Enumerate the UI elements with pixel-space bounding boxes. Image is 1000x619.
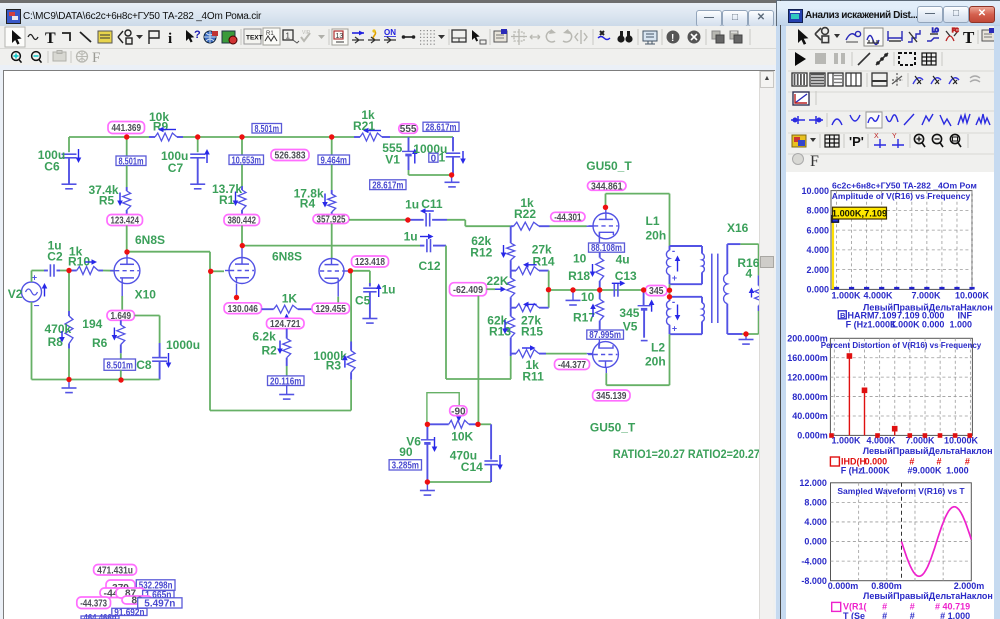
wire C12 down loop [445, 246, 447, 379]
svg-text:380.442: 380.442 [228, 216, 257, 227]
current arrow C12 [420, 236, 428, 238]
zoom out tool [32, 52, 42, 63]
wire 357.925 to C11 [349, 219, 405, 221]
wire bias loop top [427, 393, 459, 425]
wire secondary right top [758, 244, 760, 275]
current label 28.617m top [423, 122, 459, 131]
svg-text:R14: R14 [533, 255, 555, 269]
chart3 cursor dashed line [901, 483, 903, 581]
svg-text:6N8S: 6N8S [135, 233, 165, 247]
svg-text:6N8S: 6N8S [272, 250, 302, 264]
svg-text:441.369: 441.369 [112, 123, 142, 134]
source V1 555V battery [408, 137, 410, 151]
data points icon [876, 53, 888, 65]
svg-text:ЛевыйПравыйДельтаНаклон: ЛевыйПравыйДельтаНаклон [863, 591, 993, 601]
panel layout icons [792, 73, 807, 86]
properties icon [494, 31, 507, 42]
svg-text:1.000: 1.000 [949, 319, 972, 329]
node label -44.373 [77, 597, 111, 609]
distortion icon [946, 28, 959, 41]
binoculars icon [617, 31, 632, 43]
potentiometer 10K [427, 423, 448, 425]
svg-text:0.000m: 0.000m [797, 431, 828, 441]
svg-text:# 1.000: # 1.000 [940, 611, 970, 619]
svg-text:R11: R11 [522, 370, 544, 384]
svg-text:+: + [672, 324, 677, 334]
current arrow R2 [279, 341, 281, 349]
svg-text:TEXT: TEXT [246, 35, 263, 42]
wire 123.424 to X10 plate [126, 226, 128, 251]
current arrow V6 [434, 437, 436, 447]
svg-text:470k: 470k [45, 322, 72, 336]
svg-text:V1: V1 [385, 153, 400, 167]
svg-text:345.139: 345.139 [596, 391, 627, 402]
transfer icon [927, 28, 939, 41]
node label -44.301 [551, 212, 585, 221]
svg-text:1K: 1K [282, 292, 298, 306]
capacitor C12 1u [420, 245, 424, 247]
current label 464.466n clipped [81, 616, 119, 619]
current arrow V5 [651, 305, 653, 312]
resistor R17 10 [599, 290, 601, 299]
wire 10K right to C14 [478, 423, 491, 425]
properties icon [982, 28, 995, 41]
svg-text:1.000K: 1.000K [831, 290, 861, 300]
wire V2 top to C2 [31, 271, 33, 283]
current label 3.285m [389, 460, 421, 470]
junction dot 14 [449, 172, 454, 177]
svg-text:−: − [34, 301, 40, 312]
wire label to R1 [241, 165, 243, 187]
node label 88 overlapped [122, 596, 152, 604]
power display icon [373, 30, 375, 40]
help mode [186, 30, 194, 43]
current arrow R3 [344, 360, 346, 367]
svg-text:28.617m: 28.617m [372, 180, 403, 191]
node label 345 [646, 286, 668, 296]
chart1 grid [831, 191, 972, 290]
move disabled [511, 29, 527, 45]
inductor L2 primary lower [670, 296, 703, 298]
node label 526.383 [271, 150, 309, 161]
wire loop down [209, 252, 211, 411]
stop button disabled [815, 53, 826, 64]
wire grid upper GU50 [587, 225, 594, 227]
svg-text:10.653m: 10.653m [232, 155, 262, 166]
svg-text:22K: 22K [487, 274, 509, 288]
pot 22K wiper arrow [495, 288, 501, 290]
wire 357.925 down to tube3 plate [331, 224, 333, 259]
capacitor 1000u at V1 [452, 137, 454, 151]
svg-text:6.2k: 6.2k [252, 330, 276, 344]
junction dot 18 [641, 287, 646, 292]
svg-text:6.000: 6.000 [806, 225, 829, 235]
pot 10K wiper arrow [458, 415, 460, 416]
flag tool [149, 31, 159, 44]
junction dot 15 [603, 205, 608, 210]
svg-text:471.431u: 471.431u [97, 565, 133, 576]
svg-text:R15: R15 [521, 325, 543, 339]
potentiometer 22K [510, 271, 512, 278]
current arrow R12 [503, 245, 505, 253]
svg-text:-8.000: -8.000 [801, 576, 827, 586]
current arrow C13 [612, 282, 620, 284]
current arrow R8 [61, 331, 63, 337]
svg-text:10.000K: 10.000K [955, 290, 990, 300]
resistor R18 10 [599, 252, 601, 257]
current arrow R13 [504, 320, 506, 329]
wire grid lower GU50 [587, 353, 593, 355]
capacitor C7 100u [197, 137, 199, 152]
ground V1 [451, 175, 453, 182]
svg-text:ON: ON [384, 28, 396, 37]
svg-text:9.464m: 9.464m [321, 155, 348, 166]
junction dot 9 [208, 269, 213, 274]
wire cathode upper GU50 [598, 236, 600, 244]
wire tube2 cathode [236, 284, 238, 298]
svg-text:0.000: 0.000 [806, 285, 829, 295]
svg-text:2.000m: 2.000m [954, 581, 985, 591]
svg-text:R18: R18 [568, 269, 590, 283]
current label 88.108m [589, 243, 625, 252]
chart1 plot frame [831, 191, 972, 290]
svg-text:-44.373: -44.373 [80, 598, 107, 609]
svg-text:90: 90 [399, 445, 413, 459]
current arrow R1 [235, 192, 237, 201]
svg-text:1u: 1u [405, 198, 419, 212]
current label 9.464m [318, 155, 350, 165]
node label 124.721 [267, 318, 305, 328]
svg-text:4.000: 4.000 [804, 517, 827, 527]
svg-text:C6: C6 [44, 160, 60, 174]
bottom rail input stage [32, 379, 160, 381]
svg-text:1.000: 1.000 [946, 465, 969, 475]
wire cathode lower GU50 [598, 339, 600, 345]
zoom in tool [12, 52, 22, 63]
svg-text:13: 13 [336, 33, 344, 40]
wire X10 plate node right [127, 251, 210, 253]
info circle icon [667, 31, 680, 44]
grid icon [922, 53, 936, 65]
svg-text:R5: R5 [99, 194, 115, 208]
svg-text:R6: R6 [92, 336, 108, 350]
chart2 legend row IHD [830, 457, 839, 466]
junction dot 2 [239, 134, 244, 139]
svg-text:0.000: 0.000 [804, 537, 827, 547]
svg-text:L1: L1 [646, 214, 660, 228]
current label 87.995m [587, 330, 624, 339]
wire R6 to bottom rail [120, 370, 122, 380]
svg-text:'P': 'P' [849, 134, 864, 149]
component yellow icon [98, 31, 112, 43]
wire rail R21 to 1000u cap corner [390, 136, 453, 138]
junction dot 13 [546, 287, 551, 292]
current arrow R18 [592, 264, 594, 272]
wire grid node to C5 [353, 270, 370, 272]
wire L1 bottom to tap [669, 284, 671, 297]
svg-text:80.000m: 80.000m [792, 392, 828, 402]
paste picture icon [730, 31, 742, 43]
transformer core line 2 [717, 254, 719, 323]
junction dot 8 [66, 377, 71, 382]
node label 379 overlapped [106, 580, 135, 595]
ground secondary [745, 334, 747, 340]
split window icon [452, 30, 466, 42]
capacitor C2 1u [44, 270, 48, 272]
svg-text:F (Hz: F (Hz [846, 319, 868, 329]
svg-text:4: 4 [746, 267, 753, 281]
current arrow R21 [369, 130, 382, 132]
current label 8.501m rail [252, 124, 282, 134]
node label -44.377 [555, 359, 590, 369]
svg-text:8.000: 8.000 [806, 206, 829, 216]
svg-text:87.995m: 87.995m [589, 330, 621, 341]
region enable icon [222, 31, 235, 43]
pointer window icon [472, 30, 480, 42]
svg-text:-62.409: -62.409 [453, 285, 483, 296]
svg-text:160.000m: 160.000m [787, 353, 828, 363]
chart1 tooltip [833, 207, 887, 219]
node label 130.046 [224, 303, 261, 314]
svg-text:194: 194 [82, 317, 102, 331]
current arrow C14 [499, 455, 501, 465]
wire C11 to R22 jog [447, 219, 465, 221]
current arrow V2 [44, 289, 46, 297]
wire plate lower GU50 stub [605, 367, 607, 373]
svg-text:+: + [672, 273, 677, 283]
chart2 red stems and markers [848, 356, 850, 435]
junction dot 6 [124, 249, 129, 254]
current arrow R10 [85, 261, 92, 263]
junction dot 12 [405, 217, 410, 222]
resistor R13 62k [510, 308, 512, 317]
svg-text:X10: X10 [135, 287, 157, 301]
right analysis window [776, 0, 1000, 619]
wire plate lower to L2 [605, 373, 607, 385]
svg-text:526.383: 526.383 [275, 151, 306, 162]
node label 129.455 [312, 303, 350, 313]
node label -90 [450, 406, 467, 416]
resistor R22 1k [511, 225, 514, 227]
wire grid stub tube2 [211, 270, 224, 272]
current arrow V1 [414, 154, 416, 164]
capacitor C6 100u [68, 137, 70, 152]
svg-text:-: - [672, 297, 675, 308]
current label 1.665n overlapped [143, 591, 174, 599]
capacitor C5 1u [369, 283, 371, 287]
svg-text:28.617m: 28.617m [426, 122, 457, 133]
svg-text:6c2c+6н8c+ГУ50 TA-282 _4Om Poм: 6c2c+6н8c+ГУ50 TA-282 _4Om Poм [832, 180, 977, 190]
svg-text:5.497n: 5.497n [144, 599, 175, 610]
node label 345.139 [593, 390, 630, 401]
svg-text:3.285m: 3.285m [392, 460, 419, 471]
current arrow R6 [113, 328, 115, 336]
svg-text:1u: 1u [382, 283, 396, 297]
transformer core line 1 [711, 254, 713, 323]
diag wire mode [80, 32, 91, 42]
svg-text:!: ! [671, 33, 674, 44]
source V2 sine [22, 282, 42, 302]
junction dot 5 [66, 268, 71, 273]
ground R2 [286, 386, 288, 395]
wire node to R4 [331, 137, 333, 155]
source V6 90V battery [426, 424, 428, 439]
svg-text:345: 345 [649, 286, 664, 297]
svg-text:X: X [874, 133, 879, 140]
wire -62.409 down to 10K pot [477, 296, 479, 425]
svg-text:464.466n: 464.466n [84, 613, 117, 619]
svg-text:555: 555 [400, 124, 417, 135]
capacitor C8 1000u [159, 343, 161, 358]
wire R11 to lower GU50 grid [546, 353, 587, 355]
svg-text:20h: 20h [645, 355, 666, 369]
current arrow C11 [426, 210, 434, 212]
svg-text:C12: C12 [419, 259, 441, 273]
junction dot 20 [667, 294, 672, 299]
svg-text:-: - [672, 246, 675, 257]
svg-text:L2: L2 [651, 341, 665, 355]
svg-text:129.455: 129.455 [316, 304, 347, 315]
presentation icon [643, 31, 657, 41]
pot 1K wiper arrow [286, 318, 288, 321]
stretch disabled [530, 35, 540, 39]
triode V3 6N8S second [229, 258, 255, 284]
svg-text:4.000K: 4.000K [863, 290, 893, 300]
resistor R12 62k [510, 226, 512, 243]
svg-text:123.424: 123.424 [111, 216, 140, 227]
svg-text:0.800m: 0.800m [871, 581, 902, 591]
wire tube2 plate to C12 [242, 245, 420, 247]
wire R14 right down [548, 271, 550, 308]
triode V4 6N8S third mirrored [319, 259, 344, 284]
ground at C6 [62, 183, 77, 185]
chart1 zero-line blue dashes [834, 287, 975, 290]
box tool disabled [53, 52, 66, 61]
svg-text:i: i [168, 31, 172, 47]
svg-text:0.000m: 0.000m [828, 581, 859, 591]
svg-text:12.000: 12.000 [799, 478, 827, 488]
node label 344.861 [588, 181, 627, 190]
select mode 68 [815, 28, 829, 43]
svg-text:R1: R1 [266, 31, 274, 37]
link globe icon [204, 31, 216, 43]
wire node to R1 [241, 137, 243, 155]
svg-text:1u: 1u [404, 230, 418, 244]
wire V6 bottom to C14 [427, 481, 491, 483]
resistor R1 13.7k [238, 190, 246, 210]
current arrow R16 [751, 293, 753, 298]
wire V1 bottom [409, 174, 452, 176]
resistor R5 37.4k [123, 191, 131, 210]
ground V6 [426, 482, 428, 491]
svg-text:7.000K: 7.000K [911, 290, 941, 300]
copy picture icon [712, 31, 724, 43]
svg-text:8.000: 8.000 [804, 498, 827, 508]
chart3 magenta sine [902, 507, 972, 577]
current label 532.298n [136, 580, 175, 591]
svg-text:C5: C5 [355, 294, 371, 308]
current label 10.653m [229, 155, 264, 165]
resistor R3 1000k [350, 342, 352, 351]
probe icon [846, 31, 861, 42]
svg-text:1.000K: 1.000K [861, 465, 891, 475]
svg-text:T: T [963, 28, 975, 47]
svg-text:C13: C13 [615, 269, 637, 283]
svg-text:C8: C8 [136, 358, 152, 372]
wire segment icon [402, 36, 415, 38]
svg-text:-44.377: -44.377 [558, 360, 586, 371]
svg-text:124.721: 124.721 [270, 319, 301, 330]
svg-text:R13: R13 [489, 325, 511, 339]
label cap IC 0.1 [429, 153, 438, 162]
junction dot 17 [597, 287, 602, 292]
TEXT button [244, 29, 261, 44]
junction dot 11 [348, 268, 353, 273]
svg-text:#: # [910, 611, 915, 619]
current arrow C5 [378, 289, 380, 297]
svg-text:C14: C14 [461, 460, 483, 474]
svg-text:LO: LO [932, 28, 939, 34]
svg-text:-44.301: -44.301 [554, 212, 582, 223]
current label 91.692n [112, 608, 147, 615]
svg-text:20h: 20h [646, 229, 667, 243]
svg-text:4.000: 4.000 [806, 245, 829, 255]
pin numbers icon [283, 30, 293, 40]
wire node to R5 [126, 137, 128, 156]
svg-text:0: 0 [431, 153, 437, 164]
wire 380.442 to plate rail [241, 226, 243, 245]
ground output rail [572, 290, 574, 300]
capacitor C11 1u [405, 219, 424, 221]
limits icon [888, 31, 902, 41]
resistor R21 1k [354, 136, 360, 138]
svg-text:123.418: 123.418 [355, 257, 385, 268]
svg-text:130.046: 130.046 [228, 304, 259, 315]
current arrow L1 [677, 261, 679, 272]
resistor R8 470k [68, 271, 70, 312]
svg-text:V2: V2 [8, 287, 23, 301]
svg-text:GU50_T: GU50_T [590, 420, 636, 434]
current arrow R9 [164, 129, 177, 131]
svg-text:10.000: 10.000 [801, 186, 829, 196]
svg-text:1.000K,7.109: 1.000K,7.109 [832, 208, 887, 218]
svg-text:4u: 4u [616, 252, 630, 266]
wire plate to L1 top [605, 194, 607, 208]
junction dot 16 [570, 287, 575, 292]
junction dot 23 [475, 422, 480, 427]
svg-text:V5: V5 [623, 320, 638, 334]
svg-text:345: 345 [619, 306, 639, 320]
svg-text:R9: R9 [153, 120, 169, 134]
current label 5.497n [138, 598, 182, 608]
rotate cw disabled [563, 31, 572, 42]
globe disabled [77, 51, 88, 62]
current arrow R14 [529, 264, 537, 266]
resistor R11 1k [511, 353, 516, 355]
svg-text:R3: R3 [326, 359, 342, 373]
svg-text:F: F [92, 50, 100, 65]
waveform button selected [864, 28, 883, 46]
shapes 68 [118, 30, 132, 44]
chart3 legend row V(R16) [832, 602, 841, 611]
svg-text:8.501m: 8.501m [107, 360, 134, 371]
horizontal cursor icons [791, 116, 805, 124]
output rail 345 [548, 289, 550, 291]
run button [795, 52, 806, 66]
svg-text:T: T [45, 30, 56, 47]
svg-text:4.000K: 4.000K [866, 436, 896, 446]
inductor L1 primary upper [670, 245, 703, 247]
